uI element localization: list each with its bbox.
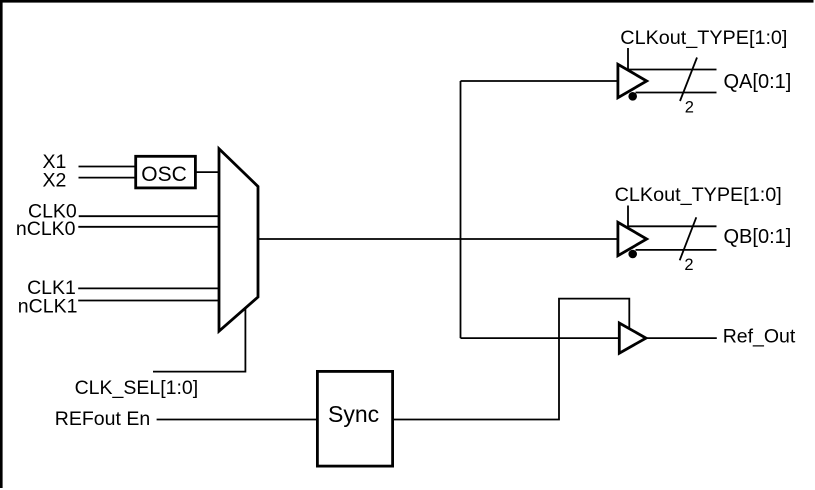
svg-text:OSC: OSC [141, 163, 187, 186]
svg-text:REFout En: REFout En [55, 408, 150, 430]
svg-text:X2: X2 [43, 170, 67, 192]
svg-text:nCLK0: nCLK0 [16, 218, 76, 240]
svg-text:CLKout_TYPE[1:0]: CLKout_TYPE[1:0] [620, 27, 787, 49]
svg-text:QA[0:1]: QA[0:1] [724, 71, 792, 93]
svg-text:nCLK1: nCLK1 [18, 295, 78, 317]
svg-text:2: 2 [685, 99, 694, 117]
svg-text:2: 2 [684, 256, 693, 274]
svg-text:QB[0:1]: QB[0:1] [724, 226, 792, 248]
svg-text:CLKout_TYPE[1:0]: CLKout_TYPE[1:0] [615, 184, 782, 206]
svg-text:Ref_Out: Ref_Out [723, 326, 796, 348]
svg-text:CLK_SEL[1:0]: CLK_SEL[1:0] [75, 377, 199, 399]
svg-text:Sync: Sync [328, 401, 379, 427]
